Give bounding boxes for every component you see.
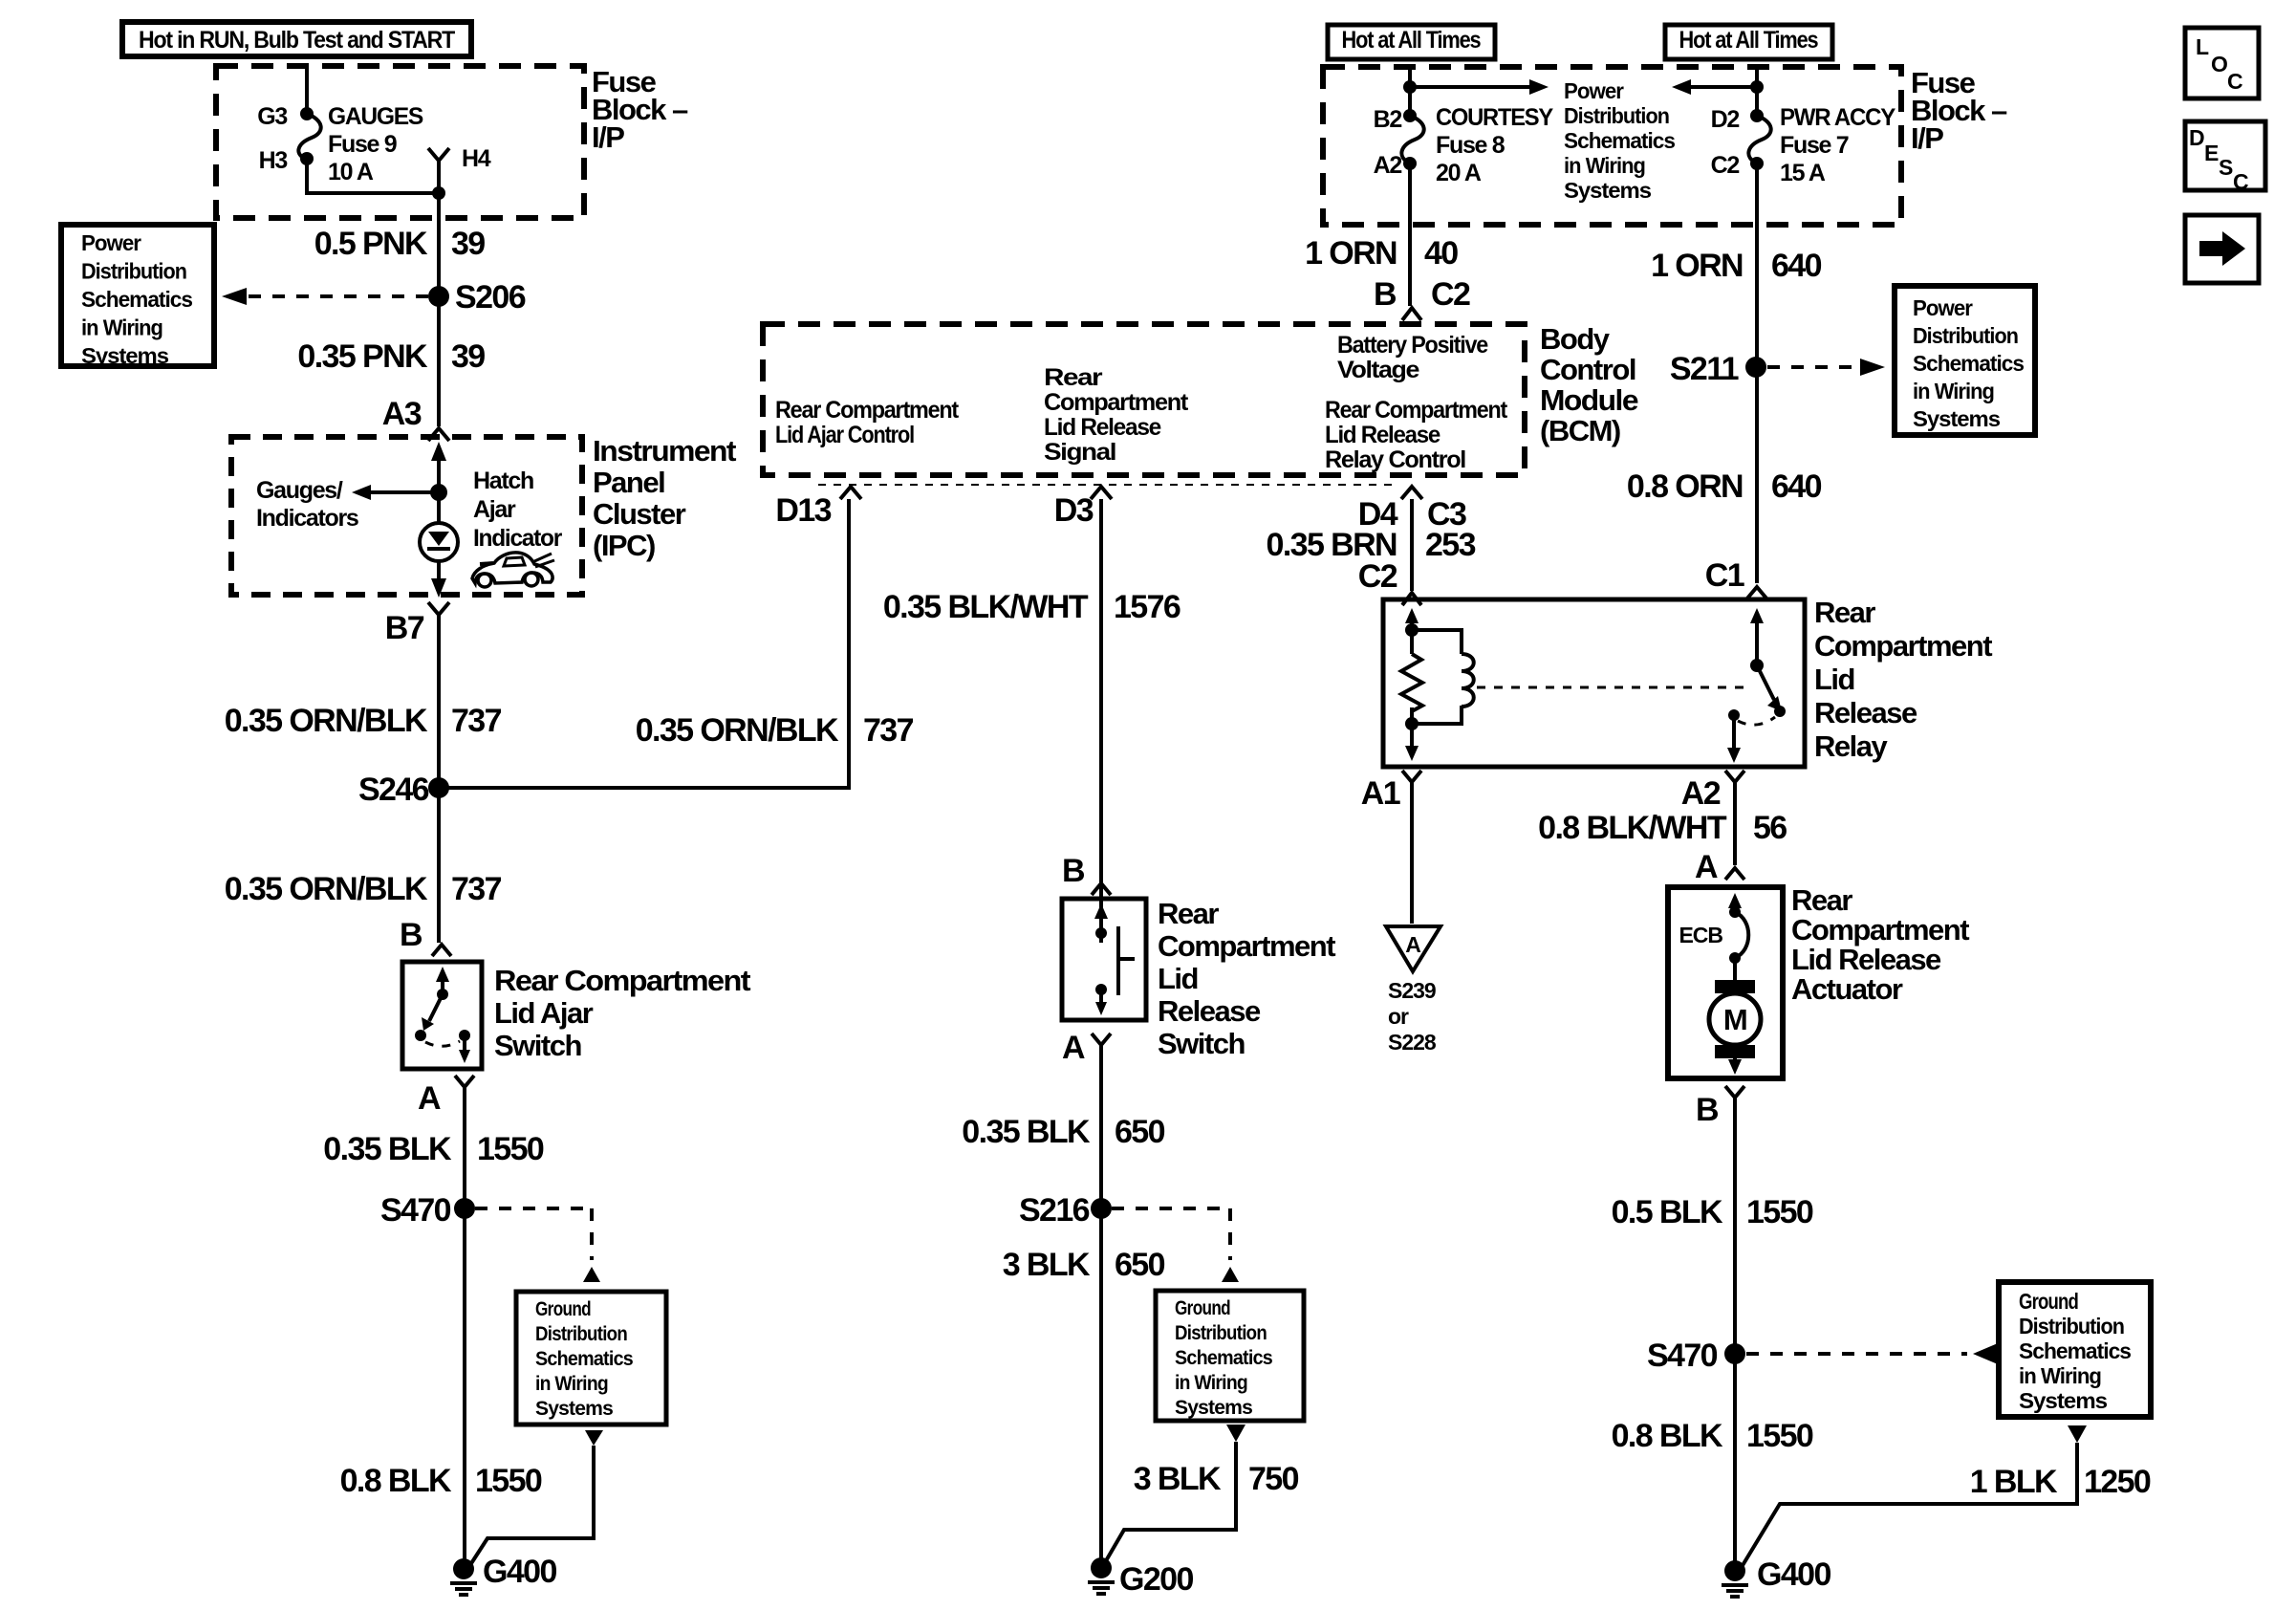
svg-text:in Wiring: in Wiring bbox=[1913, 379, 1994, 403]
svg-text:S206: S206 bbox=[455, 279, 526, 315]
fuse value label: PWR ACCY Fuse 7 15 A bbox=[1780, 104, 1896, 186]
svg-text:Switch: Switch bbox=[494, 1029, 581, 1062]
svg-text:B7: B7 bbox=[385, 610, 424, 646]
svg-text:Hot at All Times: Hot at All Times bbox=[1679, 27, 1818, 54]
reference text: Power Distribution Schematics in Wiring Systems (in fuse box) bbox=[1564, 78, 1675, 203]
junction dot left feed bbox=[1403, 80, 1417, 94]
svg-text:39: 39 bbox=[451, 226, 485, 262]
svg-text:G3: G3 bbox=[257, 103, 287, 130]
dashed wire: S206 to Power Distribution box with left arrow bbox=[222, 288, 428, 305]
svg-text:Fuse 9: Fuse 9 bbox=[328, 131, 397, 158]
DESC legend box bbox=[2185, 121, 2265, 194]
component title: Rear Compartment Lid Release Actuator bbox=[1791, 883, 1969, 1006]
svg-text:COURTESY: COURTESY bbox=[1436, 104, 1554, 131]
svg-text:A: A bbox=[1695, 849, 1718, 885]
svg-text:S211: S211 bbox=[1670, 351, 1739, 387]
svg-text:40: 40 bbox=[1424, 235, 1458, 272]
svg-text:Control: Control bbox=[1540, 353, 1635, 386]
svg-text:I/P: I/P bbox=[592, 120, 624, 154]
svg-text:in Wiring: in Wiring bbox=[81, 315, 162, 340]
lid ajar switch contacts and lever bbox=[415, 967, 470, 1063]
hatch ajar indicator lamp symbol bbox=[420, 492, 458, 561]
arrow wire to Gauges/Indicators bbox=[352, 485, 439, 500]
svg-text:Schematics: Schematics bbox=[1564, 128, 1675, 153]
svg-text:Distribution: Distribution bbox=[2019, 1314, 2124, 1338]
svg-text:Lid Release: Lid Release bbox=[1044, 414, 1161, 441]
svg-text:Systems: Systems bbox=[2019, 1388, 2107, 1413]
svg-text:0.35 BRN: 0.35 BRN bbox=[1267, 527, 1397, 563]
wire: D4 down to relay C2 bbox=[1410, 499, 1414, 591]
svg-text:GAUGES: GAUGES bbox=[328, 103, 423, 130]
svg-text:Power: Power bbox=[1564, 78, 1624, 103]
svg-text:Distribution: Distribution bbox=[1175, 1322, 1267, 1344]
relay switch output contact with dashed arc bbox=[1727, 709, 1775, 763]
svg-text:D13: D13 bbox=[775, 492, 831, 529]
svg-text:Relay: Relay bbox=[1814, 729, 1888, 763]
svg-text:S470: S470 bbox=[380, 1192, 451, 1229]
svg-text:Rear: Rear bbox=[1814, 596, 1875, 629]
BCM pin function: Rear Compartment Lid Release Relay Control bbox=[1325, 397, 1508, 473]
label Gauges/Indicators bbox=[256, 477, 358, 532]
svg-text:Hot in RUN, Bulb Test and STAR: Hot in RUN, Bulb Test and START bbox=[139, 27, 455, 54]
svg-text:0.8 ORN: 0.8 ORN bbox=[1627, 468, 1743, 505]
rear compartment lid release switch box bbox=[1062, 899, 1146, 1020]
BCM pin function: Rear Compartment Lid Ajar Control bbox=[775, 397, 960, 448]
svg-text:Lid: Lid bbox=[1158, 962, 1198, 995]
svg-text:Fuse 8: Fuse 8 bbox=[1436, 132, 1505, 159]
svg-text:B2: B2 bbox=[1374, 106, 1402, 133]
svg-text:Systems: Systems bbox=[1175, 1397, 1252, 1419]
component title: Rear Compartment Lid Ajar Switch bbox=[494, 964, 750, 1062]
svg-text:S470: S470 bbox=[1647, 1338, 1718, 1374]
svg-text:I/P: I/P bbox=[1911, 121, 1943, 155]
connector chevron D13 bbox=[840, 487, 861, 499]
fuse block I/P dashed box (right) bbox=[1323, 67, 1901, 225]
connector chevron D3 bbox=[1091, 487, 1112, 499]
svg-text:D: D bbox=[2189, 125, 2204, 150]
svg-text:C: C bbox=[2227, 69, 2242, 94]
wire: S206 down to A3 bbox=[437, 296, 441, 426]
svg-text:Systems: Systems bbox=[1913, 406, 2000, 431]
svg-text:Hot at All Times: Hot at All Times bbox=[1342, 27, 1481, 54]
svg-text:Power: Power bbox=[1913, 295, 1973, 320]
svg-text:E: E bbox=[2204, 141, 2219, 165]
fuse value label: COURTESY Fuse 8 20 A bbox=[1436, 104, 1554, 186]
svg-text:Systems: Systems bbox=[535, 1398, 613, 1420]
svg-text:Ground: Ground bbox=[1175, 1297, 1230, 1319]
arrow from ground box (middle) down bbox=[1226, 1425, 1245, 1442]
splice S246 dot bbox=[428, 777, 449, 798]
label Hatch Ajar Indicator bbox=[473, 468, 563, 552]
connector chevron C1 at relay bbox=[1746, 587, 1767, 599]
svg-text:B: B bbox=[1696, 1092, 1719, 1128]
svg-text:A2: A2 bbox=[1374, 152, 1402, 179]
wire: switch A down to S470 left bbox=[463, 1087, 466, 1208]
svg-text:Compartment: Compartment bbox=[1158, 929, 1335, 963]
actuator ECB circuit breaker bbox=[1728, 893, 1748, 980]
reference box: Ground Distribution Schematics in Wiring Systems (left) bbox=[516, 1292, 666, 1425]
svg-text:L: L bbox=[2196, 34, 2209, 59]
junction dot below H4 bbox=[432, 186, 445, 200]
svg-text:1576: 1576 bbox=[1114, 589, 1180, 625]
svg-text:O: O bbox=[2211, 52, 2227, 76]
svg-text:Hatch: Hatch bbox=[473, 468, 533, 494]
dashed wire: S470 to ground distribution box (left) bbox=[475, 1208, 600, 1282]
terminal dot B2 bbox=[1403, 109, 1417, 122]
terminal dot D2 bbox=[1750, 109, 1764, 122]
svg-text:Lid Ajar Control: Lid Ajar Control bbox=[775, 422, 914, 448]
svg-text:Systems: Systems bbox=[1564, 178, 1651, 203]
svg-text:(IPC): (IPC) bbox=[593, 529, 655, 562]
relay coil branch with arrows bbox=[1405, 608, 1419, 761]
series connector triangle A (S239) bbox=[1386, 926, 1440, 971]
dashed wire: S211 to power distribution box with right arrow bbox=[1767, 359, 1885, 376]
svg-text:S216: S216 bbox=[1019, 1192, 1090, 1229]
connector chevron A below switch bbox=[455, 1076, 474, 1087]
svg-text:Rear: Rear bbox=[1044, 364, 1103, 391]
arrow legend box bbox=[2185, 215, 2259, 283]
svg-text:Instrument: Instrument bbox=[593, 434, 736, 468]
lid release switch contacts bbox=[1094, 903, 1135, 1015]
svg-text:Distribution: Distribution bbox=[1913, 323, 2018, 348]
splice S211 dot bbox=[1745, 357, 1766, 378]
svg-text:737: 737 bbox=[863, 712, 914, 749]
label box: Hot in RUN, Bulb Test and START bbox=[122, 22, 471, 56]
arrow from ground box (left) down bbox=[585, 1430, 603, 1446]
svg-text:0.35 BLK/WHT: 0.35 BLK/WHT bbox=[883, 589, 1089, 625]
label box: Hot at All Times (right) bbox=[1665, 25, 1832, 59]
arrow from ground box (right) down bbox=[2068, 1425, 2087, 1443]
component title: Instrument Panel Cluster (IPC) bbox=[593, 434, 736, 562]
connector chevron A3 at IPC top bbox=[428, 428, 449, 441]
wire: S470 down to G400 (right) bbox=[1733, 1354, 1737, 1571]
svg-text:C2: C2 bbox=[1358, 558, 1397, 595]
svg-text:Lid: Lid bbox=[1814, 663, 1854, 696]
svg-text:Release: Release bbox=[1158, 994, 1261, 1028]
component title: Fuse Block - I/P (right) bbox=[1911, 66, 2007, 155]
svg-text:(BCM): (BCM) bbox=[1540, 414, 1620, 447]
connector chevron A below release switch bbox=[1092, 1033, 1111, 1045]
svg-text:Body: Body bbox=[1540, 322, 1611, 356]
svg-text:15 A: 15 A bbox=[1780, 160, 1826, 186]
reference box: Ground Distribution Schematics in Wiring Systems (right) bbox=[1999, 1282, 2151, 1417]
svg-text:10 A: 10 A bbox=[328, 159, 374, 185]
svg-text:Lid Release: Lid Release bbox=[1791, 943, 1941, 976]
dashed wire: S216 to ground distribution box (middle) bbox=[1112, 1208, 1239, 1282]
svg-text:640: 640 bbox=[1771, 468, 1822, 505]
svg-text:Voltage: Voltage bbox=[1337, 357, 1419, 383]
wire: S211 down to relay C1 bbox=[1755, 367, 1759, 583]
relay switch lever bbox=[1757, 665, 1786, 717]
svg-text:0.8 BLK: 0.8 BLK bbox=[1612, 1418, 1723, 1454]
reference box: Power Distribution Schematics in Wiring Systems (left) bbox=[61, 225, 214, 368]
svg-text:A: A bbox=[1062, 1030, 1085, 1066]
wire: release switch A down to S216 bbox=[1099, 1045, 1103, 1208]
svg-text:Cluster: Cluster bbox=[593, 497, 686, 531]
svg-text:Rear Compartment: Rear Compartment bbox=[1325, 397, 1508, 424]
wire: D3 down to release switch bbox=[1099, 499, 1103, 943]
svg-text:G200: G200 bbox=[1119, 1561, 1193, 1598]
body control module dashed box bbox=[763, 324, 1525, 475]
svg-text:Rear Compartment: Rear Compartment bbox=[494, 964, 750, 997]
svg-text:S246: S246 bbox=[358, 772, 429, 808]
svg-text:Schematics: Schematics bbox=[1175, 1347, 1272, 1369]
arrow wire to power distribution text (left-pointing) bbox=[1672, 79, 1757, 95]
junction dot in IPC bbox=[430, 484, 447, 501]
svg-text:0.35 BLK: 0.35 BLK bbox=[323, 1131, 452, 1167]
svg-text:39: 39 bbox=[451, 338, 485, 375]
svg-text:A: A bbox=[1405, 932, 1420, 957]
connector chevron B7 below IPC bbox=[428, 602, 449, 615]
svg-text:Distribution: Distribution bbox=[81, 259, 186, 284]
svg-text:S239: S239 bbox=[1388, 978, 1436, 1003]
svg-text:Actuator: Actuator bbox=[1791, 972, 1903, 1006]
connector chevron A at actuator bbox=[1725, 868, 1744, 880]
component title: Body Control Module (BCM) bbox=[1540, 322, 1638, 447]
svg-text:D2: D2 bbox=[1711, 106, 1740, 133]
wire: ground box to G400 (right) bbox=[1742, 1443, 2077, 1567]
svg-text:B: B bbox=[400, 917, 422, 953]
terminal dot C2 (fuse) bbox=[1750, 157, 1764, 170]
junction dot right feed bbox=[1750, 80, 1764, 94]
fuse F8 COURTESY element bbox=[1401, 116, 1423, 163]
svg-text:Schematics: Schematics bbox=[81, 287, 192, 312]
svg-text:737: 737 bbox=[451, 703, 502, 739]
svg-text:Relay Control: Relay Control bbox=[1325, 446, 1465, 473]
svg-text:Ajar: Ajar bbox=[473, 496, 516, 523]
splice label S239 or S228 bbox=[1388, 978, 1437, 1055]
svg-text:1550: 1550 bbox=[475, 1463, 542, 1499]
svg-text:Distribution: Distribution bbox=[535, 1323, 627, 1345]
svg-text:Battery Positive: Battery Positive bbox=[1337, 332, 1488, 359]
BCM pin function: Battery Positive Voltage bbox=[1337, 332, 1488, 383]
splice S216 dot bbox=[1091, 1198, 1112, 1219]
svg-text:B: B bbox=[1374, 276, 1397, 313]
rear compartment lid ajar switch box bbox=[402, 962, 482, 1069]
wire: A2 fuse down to BCM connector B bbox=[1408, 163, 1412, 306]
relay internal dashed actuation line bbox=[1477, 686, 1749, 689]
connector chevron A2 below relay bbox=[1725, 771, 1744, 782]
svg-text:S: S bbox=[2219, 155, 2233, 180]
svg-text:Rear Compartment: Rear Compartment bbox=[775, 397, 960, 424]
svg-text:in Wiring: in Wiring bbox=[1564, 153, 1645, 178]
svg-text:1550: 1550 bbox=[1746, 1418, 1813, 1454]
rear compartment lid release actuator box bbox=[1668, 887, 1783, 1078]
instrument panel cluster dashed box bbox=[231, 437, 582, 595]
svg-text:650: 650 bbox=[1115, 1114, 1165, 1150]
terminal dot A2 bbox=[1403, 157, 1417, 170]
svg-text:Compartment: Compartment bbox=[1044, 389, 1189, 416]
relay coil bracket and winding bbox=[1412, 630, 1474, 724]
svg-text:650: 650 bbox=[1115, 1247, 1165, 1283]
svg-text:1 ORN: 1 ORN bbox=[1305, 235, 1397, 272]
svg-text:0.35 BLK: 0.35 BLK bbox=[962, 1114, 1091, 1150]
relay switch common with up arrow bbox=[1750, 608, 1764, 672]
svg-text:Schematics: Schematics bbox=[1913, 351, 2024, 376]
svg-text:0.35 ORN/BLK: 0.35 ORN/BLK bbox=[225, 871, 428, 907]
wire: relay A2 down to actuator A bbox=[1733, 782, 1737, 865]
svg-text:0.8 BLK/WHT: 0.8 BLK/WHT bbox=[1538, 810, 1727, 846]
wire: S246 branch right to D13 riser bbox=[439, 499, 849, 788]
ground G400 symbol (right) bbox=[1722, 1560, 1748, 1597]
wire: C2 fuse down to S211 bbox=[1755, 163, 1759, 367]
relay resistor zigzag bbox=[1401, 654, 1422, 711]
svg-text:D3: D3 bbox=[1054, 492, 1094, 529]
svg-text:H3: H3 bbox=[259, 147, 288, 174]
LOC legend box bbox=[2185, 28, 2259, 98]
wire: left fuse feed from box top bbox=[1408, 67, 1412, 116]
svg-text:G400: G400 bbox=[1757, 1556, 1830, 1593]
svg-text:Fuse 7: Fuse 7 bbox=[1780, 132, 1849, 159]
svg-text:C1: C1 bbox=[1705, 557, 1744, 594]
wire: relay A1 down to S239 triangle bbox=[1410, 782, 1414, 924]
svg-text:1 BLK: 1 BLK bbox=[1970, 1464, 2058, 1500]
svg-text:Rear: Rear bbox=[1791, 883, 1852, 917]
svg-text:Gauges/: Gauges/ bbox=[256, 477, 343, 504]
dashed wire: S470 to ground distribution box (right) bbox=[1746, 1343, 1998, 1364]
rear compartment lid release relay box bbox=[1383, 599, 1805, 767]
wire: H4 junction down to S206 bbox=[437, 193, 441, 296]
splice S470 dot (right) bbox=[1724, 1343, 1745, 1364]
wire: ground box to G400 (left) bbox=[466, 1446, 594, 1571]
svg-text:C2: C2 bbox=[1431, 276, 1470, 313]
svg-text:Compartment: Compartment bbox=[1791, 913, 1969, 946]
svg-text:Indicator: Indicator bbox=[473, 525, 563, 552]
svg-text:1550: 1550 bbox=[477, 1131, 544, 1167]
svg-text:Schematics: Schematics bbox=[2019, 1338, 2131, 1363]
svg-text:Ground: Ground bbox=[2019, 1289, 2078, 1314]
fuse block I/P dashed box (left) bbox=[216, 66, 584, 218]
svg-text:A1: A1 bbox=[1361, 775, 1400, 812]
svg-text:750: 750 bbox=[1248, 1461, 1299, 1497]
svg-text:in Wiring: in Wiring bbox=[1175, 1372, 1247, 1394]
wire: S246 down to switch B bbox=[437, 788, 441, 943]
svg-text:1 ORN: 1 ORN bbox=[1651, 248, 1743, 284]
wire: ground box to G200 bbox=[1104, 1442, 1236, 1564]
svg-text:Power: Power bbox=[81, 230, 141, 255]
fuse F7 PWR ACCY element bbox=[1748, 116, 1770, 163]
connector chevron A1 below relay bbox=[1402, 771, 1421, 782]
connector chevron B C2 at BCM top bbox=[1402, 308, 1421, 320]
splice S470 dot (left) bbox=[454, 1198, 475, 1219]
terminal dot H3 bbox=[300, 152, 314, 165]
svg-text:Ground: Ground bbox=[535, 1298, 591, 1320]
component title: Rear Compartment Lid Release Switch bbox=[1158, 897, 1335, 1060]
svg-text:PWR ACCY: PWR ACCY bbox=[1780, 104, 1896, 131]
svg-text:737: 737 bbox=[451, 871, 502, 907]
svg-text:253: 253 bbox=[1425, 527, 1476, 563]
wire: lamp down to IPC bottom with down arrow bbox=[431, 561, 446, 598]
actuator motor M bbox=[1709, 980, 1761, 1075]
svg-text:Compartment: Compartment bbox=[1814, 629, 1992, 663]
svg-text:H4: H4 bbox=[462, 145, 491, 172]
svg-text:0.5 PNK: 0.5 PNK bbox=[314, 226, 428, 262]
wire: B7 down to S246 bbox=[437, 615, 441, 788]
svg-text:C: C bbox=[2233, 169, 2248, 194]
svg-text:Systems: Systems bbox=[81, 343, 168, 368]
terminal dot G3 bbox=[300, 107, 314, 120]
wire: fuse box top to G3 bbox=[305, 66, 309, 108]
fuse value label: GAUGES Fuse 9 10 A bbox=[328, 103, 423, 185]
connector chevron D4 C3 at BCM bottom bbox=[1401, 487, 1422, 499]
BCM connector face thin dashed line bbox=[818, 484, 1397, 486]
svg-text:Panel: Panel bbox=[593, 466, 664, 499]
car icon bbox=[472, 553, 554, 587]
ground G200 symbol bbox=[1088, 1557, 1115, 1594]
svg-text:in Wiring: in Wiring bbox=[535, 1373, 608, 1395]
connector chevron B at release switch bbox=[1092, 883, 1111, 895]
svg-text:20 A: 20 A bbox=[1436, 160, 1482, 186]
svg-text:S228: S228 bbox=[1388, 1030, 1437, 1055]
svg-text:Signal: Signal bbox=[1044, 439, 1116, 466]
connector chevron B below actuator bbox=[1725, 1086, 1744, 1098]
wire: S470 down to G400 (left) bbox=[463, 1208, 466, 1569]
svg-text:0.35 ORN/BLK: 0.35 ORN/BLK bbox=[636, 712, 839, 749]
wire: IPC top into junction with up arrow bbox=[431, 442, 446, 492]
svg-text:Switch: Switch bbox=[1158, 1027, 1245, 1060]
ground G400 symbol (left) bbox=[450, 1558, 477, 1595]
wire: actuator B down to S470 right bbox=[1733, 1098, 1737, 1354]
svg-text:A3: A3 bbox=[382, 396, 422, 432]
svg-text:or: or bbox=[1388, 1004, 1409, 1029]
svg-text:1250: 1250 bbox=[2084, 1464, 2151, 1500]
svg-text:0.5 BLK: 0.5 BLK bbox=[1612, 1194, 1723, 1230]
svg-text:Distribution: Distribution bbox=[1564, 103, 1669, 128]
svg-text:Module: Module bbox=[1540, 383, 1638, 417]
svg-text:Lid Ajar: Lid Ajar bbox=[494, 996, 594, 1030]
wire: S216 down to G200 bbox=[1099, 1208, 1103, 1568]
svg-text:in Wiring: in Wiring bbox=[2019, 1363, 2101, 1388]
svg-text:1550: 1550 bbox=[1746, 1194, 1813, 1230]
connector H4 Y symbol bbox=[428, 148, 449, 193]
component title: Rear Compartment Lid Release Relay bbox=[1814, 596, 1992, 763]
svg-text:0.35 ORN/BLK: 0.35 ORN/BLK bbox=[225, 703, 428, 739]
component title: Fuse Block - I/P bbox=[592, 65, 688, 154]
svg-text:M: M bbox=[1723, 1003, 1746, 1036]
svg-text:C2: C2 bbox=[1711, 152, 1740, 179]
svg-text:56: 56 bbox=[1753, 810, 1787, 846]
wire: right fuse feed from box top bbox=[1755, 67, 1759, 116]
reference box: Ground Distribution Schematics in Wiring Systems (middle) bbox=[1156, 1291, 1304, 1421]
svg-text:A2: A2 bbox=[1681, 775, 1721, 812]
svg-text:0.8 BLK: 0.8 BLK bbox=[340, 1463, 452, 1499]
splice S206 dot bbox=[428, 286, 449, 307]
svg-text:A: A bbox=[418, 1080, 441, 1117]
svg-text:ECB: ECB bbox=[1679, 923, 1722, 947]
svg-text:G400: G400 bbox=[483, 1554, 556, 1590]
svg-text:3 BLK: 3 BLK bbox=[1003, 1247, 1091, 1283]
svg-text:Release: Release bbox=[1814, 696, 1917, 729]
svg-text:3 BLK: 3 BLK bbox=[1134, 1461, 1222, 1497]
svg-text:Rear: Rear bbox=[1158, 897, 1219, 930]
label box: Hot at All Times (left) bbox=[1328, 25, 1495, 59]
svg-text:Lid Release: Lid Release bbox=[1325, 422, 1440, 448]
svg-text:B: B bbox=[1062, 853, 1085, 889]
wire: H3 down and right to H4 junction bbox=[307, 159, 439, 193]
arrow wire to power distribution text (right-pointing) bbox=[1410, 79, 1549, 95]
fuse F9 GAUGES element bbox=[298, 114, 320, 160]
svg-text:Indicators: Indicators bbox=[256, 505, 358, 532]
connector chevron C2 at relay (from D4) bbox=[1402, 593, 1421, 605]
svg-text:Schematics: Schematics bbox=[535, 1348, 633, 1370]
svg-text:640: 640 bbox=[1771, 248, 1822, 284]
svg-text:0.35 PNK: 0.35 PNK bbox=[297, 338, 428, 375]
connector chevron B at switch bbox=[432, 945, 451, 956]
BCM pin function: Rear Compartment Lid Release Signal bbox=[1044, 364, 1189, 466]
reference box: Power Distribution Schematics in Wiring Systems (right) bbox=[1895, 286, 2035, 435]
